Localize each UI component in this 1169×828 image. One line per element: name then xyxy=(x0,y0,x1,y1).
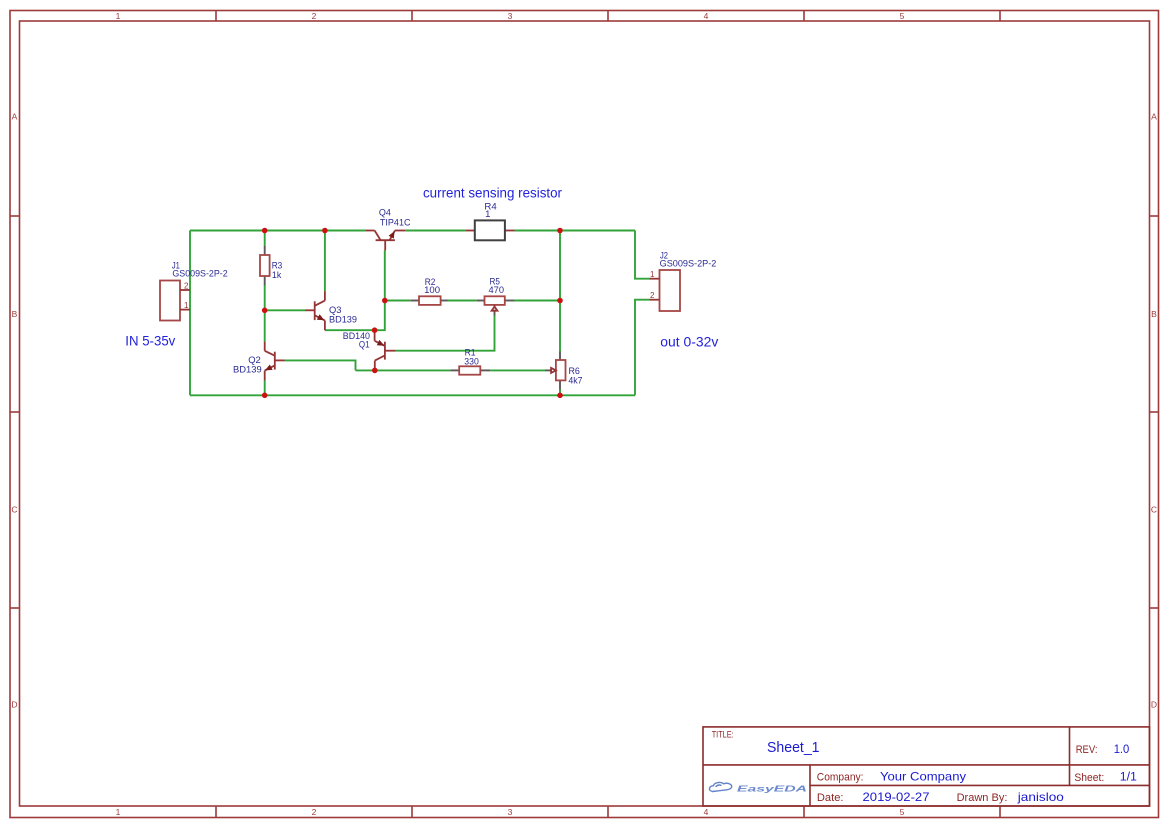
transistor Q4 xyxy=(365,231,405,251)
wire Q1 base to R5 wiper xyxy=(395,315,494,351)
base bar of Q3 xyxy=(314,301,316,320)
base pin of Q4 xyxy=(384,240,386,250)
resistor R3 xyxy=(260,246,270,285)
collector diagonal of Q1 xyxy=(375,355,385,360)
svg-text:current sensing resistor: current sensing resistor xyxy=(423,186,562,201)
svg-text:3: 3 xyxy=(508,807,513,817)
wire bottom rail xyxy=(190,394,635,396)
pin 2 of J1 xyxy=(180,289,190,291)
svg-text:2: 2 xyxy=(184,282,189,291)
svg-text:BD139: BD139 xyxy=(329,314,357,325)
resistor R4 current sensing xyxy=(465,220,514,240)
wiper tail of R5 xyxy=(494,311,496,312)
collector diagonal of Q4 xyxy=(375,231,381,241)
svg-text:REV:: REV: xyxy=(1076,744,1098,756)
pin 1 of R3 xyxy=(264,246,266,255)
svg-text:4: 4 xyxy=(704,11,709,21)
svg-text:D: D xyxy=(1151,700,1157,710)
EasyEDA logo xyxy=(709,782,807,793)
resistor R1 xyxy=(450,366,490,374)
svg-text:1: 1 xyxy=(116,807,121,817)
svg-text:Q1: Q1 xyxy=(359,339,370,350)
svg-text:EasyEDA: EasyEDA xyxy=(737,784,807,794)
emitter pin of Q2 xyxy=(264,371,266,381)
junction R2 left node xyxy=(382,298,388,304)
svg-text:C: C xyxy=(1151,505,1157,515)
svg-text:470: 470 xyxy=(489,285,505,296)
collector pin of Q3 xyxy=(324,291,326,301)
pin 1 of R1 xyxy=(450,369,459,371)
title block xyxy=(703,727,1150,806)
base bar of Q2 xyxy=(274,352,276,370)
junction R5 right node xyxy=(557,298,563,304)
junction top rail Q3 collector xyxy=(322,228,328,234)
pin 1 of J2 xyxy=(650,278,660,280)
collector pin of Q1 xyxy=(374,361,376,371)
transistor Q3 xyxy=(305,291,325,330)
svg-text:A: A xyxy=(12,112,18,122)
junction Q1 emitter node xyxy=(372,327,378,333)
wire R3 bottom to Q2 collector xyxy=(264,285,266,342)
junction R3 bottom node xyxy=(262,308,268,314)
wiper pin 3 of R5 xyxy=(494,312,496,316)
wire R1 left row xyxy=(356,369,451,371)
pin 2 of R2 xyxy=(441,300,448,302)
base pin of Q1 xyxy=(385,350,395,352)
wiper lead of R6 xyxy=(545,369,549,371)
svg-text:BD139: BD139 xyxy=(233,365,262,376)
svg-text:5: 5 xyxy=(900,807,905,817)
svg-text:2: 2 xyxy=(650,291,655,300)
wire top rail mid xyxy=(405,230,465,232)
svg-text:Your Company: Your Company xyxy=(880,769,966,783)
wiper tail of R6 xyxy=(549,369,551,371)
collector diagonal of Q2 xyxy=(265,351,275,356)
junction top rail R3 xyxy=(262,228,268,234)
pin 2 of J2 xyxy=(650,299,660,301)
wire Q3 emitter to Q4 base node xyxy=(325,250,385,330)
emitter diagonal of Q4 xyxy=(390,231,395,241)
wiper arrow of R6 xyxy=(551,368,556,373)
base bar of Q4 xyxy=(376,239,395,241)
svg-text:B: B xyxy=(1151,309,1157,319)
pin 1 of R2 xyxy=(410,300,419,302)
junction bottom rail R6 xyxy=(557,393,563,399)
potentiometer R5 xyxy=(477,296,515,315)
svg-text:janisloo: janisloo xyxy=(1017,790,1064,804)
svg-text:TITLE:: TITLE: xyxy=(712,730,734,740)
svg-text:1: 1 xyxy=(116,11,121,21)
wire right vertical upper to J2 pin1 xyxy=(635,231,650,279)
body R4 xyxy=(475,220,505,240)
body R3 xyxy=(260,255,270,276)
pin 2 of R1 xyxy=(480,369,490,371)
emitter diagonal of Q1 xyxy=(375,341,385,346)
base pin of Q2 xyxy=(275,359,285,361)
svg-text:Sheet_1: Sheet_1 xyxy=(767,740,820,756)
pin 2 of R6 xyxy=(559,380,561,389)
pin 2 of R5 xyxy=(505,300,514,302)
wire R2 left xyxy=(385,300,411,302)
junction Q1 collector node xyxy=(372,368,378,374)
wire J2 pin2 to bottom rail xyxy=(635,300,650,396)
pin 2 of R4 xyxy=(505,230,515,232)
svg-text:1k: 1k xyxy=(272,270,282,281)
svg-text:1/1: 1/1 xyxy=(1120,770,1137,784)
svg-text:4: 4 xyxy=(704,807,709,817)
wire top rail left xyxy=(190,230,365,232)
body R6 xyxy=(556,360,566,380)
pin 1 of R4 xyxy=(465,230,475,232)
pin 2 of R3 xyxy=(264,276,266,285)
wire left vertical xyxy=(189,231,191,396)
emitter pin of Q4 xyxy=(395,230,405,232)
svg-text:330: 330 xyxy=(464,356,479,367)
wire Q3 collector riser xyxy=(324,231,326,292)
transistor Q1 PNP xyxy=(375,332,396,371)
connector J1 xyxy=(160,281,190,321)
junction bottom rail Q2 xyxy=(262,393,268,399)
body R5 xyxy=(485,296,505,305)
wiper stub of R5 xyxy=(494,305,496,307)
wire right mid vertical to R6 xyxy=(559,301,561,353)
emitter arrow of Q4 xyxy=(389,231,395,239)
wire R1 right to R6 wiper xyxy=(490,369,545,371)
body R1 xyxy=(459,366,480,374)
svg-text:D: D xyxy=(11,700,17,710)
wire R2-R5 mid xyxy=(447,300,476,302)
base pin of Q3 xyxy=(305,309,315,311)
svg-text:A: A xyxy=(1151,112,1157,122)
svg-text:5: 5 xyxy=(900,11,905,21)
emitter arrow of Q2 xyxy=(265,365,273,371)
svg-text:1: 1 xyxy=(650,270,655,279)
body J1 xyxy=(160,281,180,321)
emitter diagonal of Q3 xyxy=(315,315,325,320)
wire Q3 base xyxy=(265,309,306,311)
base bar of Q1 xyxy=(384,342,386,360)
transistor Q2 xyxy=(265,342,285,381)
svg-text:C: C xyxy=(11,505,17,515)
emitter diagonal of Q2 xyxy=(265,365,275,370)
wire Q2 emitter to rail xyxy=(264,380,266,395)
resistor R2 xyxy=(410,296,447,305)
emitter arrow of Q1 (PNP) xyxy=(377,340,385,346)
svg-text:IN 5-35v: IN 5-35v xyxy=(125,334,175,349)
collector pin of Q4 xyxy=(365,230,374,232)
svg-text:B: B xyxy=(12,309,18,319)
svg-text:1: 1 xyxy=(485,209,490,220)
body J2 xyxy=(660,270,681,311)
svg-text:Company:: Company: xyxy=(817,771,864,783)
wire top rail right xyxy=(515,230,636,232)
svg-text:Drawn By:: Drawn By: xyxy=(957,792,1008,804)
svg-text:100: 100 xyxy=(424,285,440,296)
svg-text:2: 2 xyxy=(312,807,317,817)
svg-text:2019-02-27: 2019-02-27 xyxy=(863,790,930,804)
wire R5 right xyxy=(514,300,560,302)
svg-text:Date:: Date: xyxy=(817,792,844,804)
connector J2 xyxy=(650,270,681,311)
pin 1 of R6 xyxy=(559,352,561,360)
emitter pin of Q1 xyxy=(374,332,376,341)
potentiometer R6 xyxy=(545,352,565,390)
collector diagonal of Q3 xyxy=(315,301,325,306)
collector pin of Q2 xyxy=(264,342,266,351)
svg-text:3: 3 xyxy=(508,11,513,21)
svg-text:1: 1 xyxy=(184,301,189,310)
body R2 xyxy=(419,296,441,305)
wiper arrow of R5 xyxy=(492,307,498,311)
svg-text:1.0: 1.0 xyxy=(1114,742,1130,756)
svg-text:TIP41C: TIP41C xyxy=(380,217,411,228)
pin 1 of J1 xyxy=(180,309,190,311)
emitter pin of Q3 xyxy=(324,321,326,331)
svg-text:GS009S-2P-2: GS009S-2P-2 xyxy=(660,258,717,269)
junction top rail R4 right xyxy=(557,228,563,234)
wire R3 top xyxy=(264,231,266,247)
svg-text:4k7: 4k7 xyxy=(568,375,582,386)
wire Q2 base step xyxy=(284,360,355,370)
svg-text:2: 2 xyxy=(312,11,317,21)
svg-text:out 0-32v: out 0-32v xyxy=(660,335,718,350)
wire R6 bottom to rail xyxy=(559,389,561,395)
wire right mid vertical upper xyxy=(559,231,561,301)
emitter arrow of Q3 xyxy=(317,314,325,320)
svg-text:Sheet:: Sheet: xyxy=(1074,772,1104,784)
svg-text:GS009S-2P-2: GS009S-2P-2 xyxy=(172,269,227,280)
pin 1 of R5 xyxy=(477,300,485,302)
